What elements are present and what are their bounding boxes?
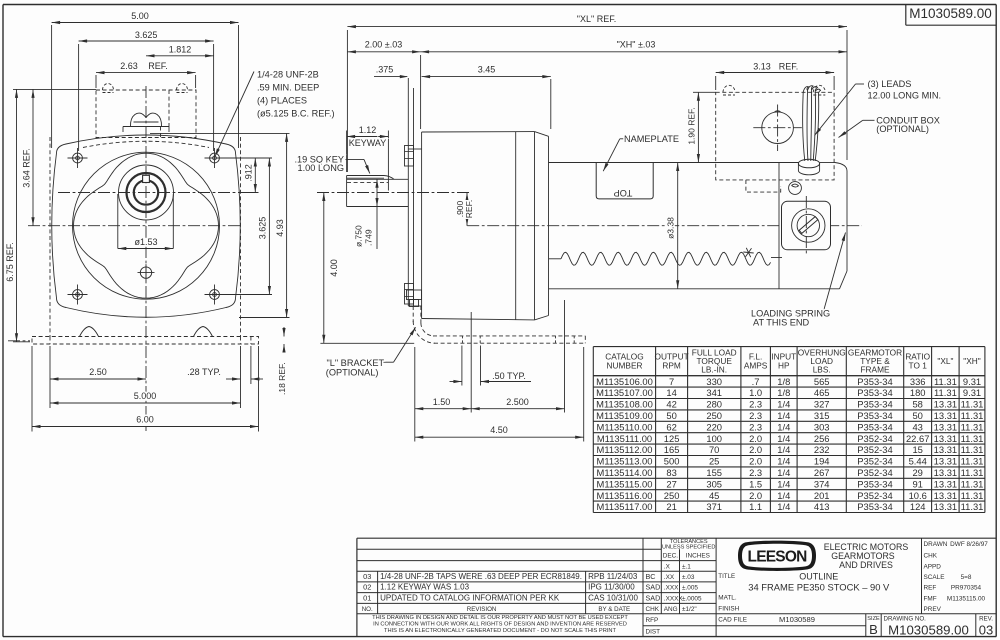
svg-text:P353-34: P353-34 (857, 399, 892, 410)
svg-text:1.1: 1.1 (749, 501, 762, 512)
svg-text:M1135117.00: M1135117.00 (597, 501, 653, 512)
svg-text:03: 03 (363, 572, 371, 581)
svg-text:TOP: TOP (614, 188, 633, 198)
svg-text:P352-34: P352-34 (857, 467, 892, 478)
svg-text:13.31: 13.31 (934, 467, 957, 478)
svg-text:DIST: DIST (646, 629, 661, 636)
svg-text:SCALE: SCALE (924, 574, 945, 581)
svg-text:50: 50 (912, 410, 922, 421)
svg-text:1/8: 1/8 (777, 387, 790, 398)
svg-text:"XH" ±.03: "XH" ±.03 (617, 40, 656, 50)
svg-text:REVISION: REVISION (467, 606, 497, 613)
svg-text:TO 1: TO 1 (909, 360, 928, 370)
svg-text:50: 50 (666, 410, 676, 421)
svg-text:INCHES: INCHES (686, 552, 710, 559)
svg-text:1/4: 1/4 (777, 444, 790, 455)
svg-text:13.31: 13.31 (934, 410, 957, 421)
svg-text:M1135115.00: M1135115.00 (947, 595, 986, 602)
svg-text:THIS DRAWING IN DESIGN AND DET: THIS DRAWING IN DESIGN AND DETAIL IS OUR… (372, 615, 628, 621)
svg-text:±.0005: ±.0005 (682, 595, 702, 602)
svg-text:1.90 REF.: 1.90 REF. (687, 107, 697, 144)
svg-text:.912: .912 (244, 164, 254, 182)
svg-text:.XXX: .XXX (664, 585, 679, 592)
svg-text:5.44: 5.44 (909, 456, 927, 467)
svg-text:465: 465 (814, 387, 830, 398)
svg-text:194: 194 (814, 456, 830, 467)
svg-text:13.31: 13.31 (934, 444, 957, 455)
svg-text:"XL": "XL" (937, 356, 953, 366)
svg-text:P352-34: P352-34 (857, 444, 892, 455)
svg-text:3.13: 3.13 (753, 61, 771, 71)
svg-text:REF.: REF. (148, 61, 168, 71)
svg-text:1/4-28 UNF-2B TAPS WERE .63 DE: 1/4-28 UNF-2B TAPS WERE .63 DEEP PER ECR… (380, 572, 582, 581)
svg-text:5.000: 5.000 (134, 391, 157, 401)
svg-text:M1030589.00: M1030589.00 (888, 622, 969, 637)
svg-text:.375: .375 (376, 64, 394, 74)
svg-text:±.005: ±.005 (682, 585, 698, 592)
svg-text:P352-34: P352-34 (857, 456, 892, 467)
svg-text:FRAME: FRAME (860, 365, 890, 375)
svg-text:"L" BRACKET: "L" BRACKET (327, 358, 385, 368)
svg-text:315: 315 (814, 410, 830, 421)
svg-text:CHK: CHK (646, 606, 660, 613)
svg-text:BC: BC (646, 572, 656, 581)
svg-text:165: 165 (664, 444, 680, 455)
svg-text:305: 305 (706, 478, 722, 489)
svg-text:29: 29 (912, 467, 922, 478)
svg-text:MATL.: MATL. (718, 595, 737, 602)
svg-text:THIS IS AN ELECTRONICALLY GENE: THIS IS AN ELECTRONICALLY GENERATED DOCU… (384, 628, 616, 634)
svg-text:UNLESS SPECIFIED: UNLESS SPECIFIED (662, 545, 715, 551)
svg-text:22.67: 22.67 (906, 433, 929, 444)
svg-text:DRAWN: DRAWN (924, 541, 948, 548)
svg-text:27: 27 (666, 478, 676, 489)
svg-text:11.31: 11.31 (934, 376, 957, 387)
svg-text:250: 250 (706, 410, 722, 421)
svg-text:1.5: 1.5 (749, 478, 762, 489)
svg-text:(4) PLACES: (4) PLACES (257, 96, 307, 106)
svg-text:3.625: 3.625 (135, 30, 158, 40)
svg-text:M1135110.00: M1135110.00 (597, 421, 653, 432)
svg-text:1/8: 1/8 (777, 376, 790, 387)
svg-text:2.3: 2.3 (749, 421, 762, 432)
svg-text:267: 267 (814, 467, 830, 478)
svg-text:250: 250 (664, 490, 680, 501)
svg-text:1/4: 1/4 (777, 490, 790, 501)
svg-text:500: 500 (664, 456, 680, 467)
svg-text:.59 MIN. DEEP: .59 MIN. DEEP (257, 83, 319, 93)
svg-text:REV.: REV. (979, 615, 993, 622)
svg-text:1/4: 1/4 (777, 467, 790, 478)
svg-text:ø1.53: ø1.53 (134, 237, 157, 247)
svg-text:LBS.: LBS. (813, 365, 831, 375)
svg-text:5.00: 5.00 (131, 11, 149, 21)
svg-text:1.0: 1.0 (749, 387, 762, 398)
svg-text:±.1: ±.1 (682, 563, 691, 570)
svg-text:CHK: CHK (924, 552, 938, 559)
svg-text:BY & DATE: BY & DATE (598, 606, 630, 613)
svg-text:1/4: 1/4 (777, 433, 790, 444)
svg-text:13.31: 13.31 (934, 433, 957, 444)
svg-text:1/4-28 UNF-2B: 1/4-28 UNF-2B (257, 70, 319, 80)
svg-text:45: 45 (709, 490, 719, 501)
svg-text:303: 303 (814, 421, 830, 432)
svg-text:3.45: 3.45 (478, 64, 496, 74)
svg-text:.749: .749 (364, 229, 374, 246)
svg-text:RPM: RPM (662, 360, 681, 370)
svg-text:11.31: 11.31 (961, 490, 984, 501)
svg-text:REF: REF (924, 585, 937, 592)
svg-text:13.31: 13.31 (934, 399, 957, 410)
svg-text:"XH": "XH" (963, 356, 980, 366)
svg-text:336: 336 (910, 376, 926, 387)
svg-text:1.812: 1.812 (169, 44, 192, 54)
svg-text:371: 371 (706, 501, 722, 512)
svg-text:565: 565 (814, 376, 830, 387)
svg-text:OUTLINE: OUTLINE (799, 572, 838, 582)
svg-text:1/4: 1/4 (777, 410, 790, 421)
svg-text:M1135115.00: M1135115.00 (597, 478, 653, 489)
svg-text:P353-34: P353-34 (857, 421, 892, 432)
svg-text:AMPS: AMPS (744, 360, 768, 370)
svg-text:413: 413 (814, 501, 830, 512)
svg-text:(3) LEADS: (3) LEADS (868, 79, 912, 89)
svg-text:4.00: 4.00 (329, 259, 339, 277)
svg-text:P353-34: P353-34 (857, 478, 892, 489)
svg-text:M1135108.00: M1135108.00 (596, 399, 653, 410)
svg-text:3.64 REF.: 3.64 REF. (21, 148, 31, 188)
svg-text:P353-34: P353-34 (857, 501, 892, 512)
svg-text:LEESON: LEESON (748, 549, 808, 566)
svg-text:CAS 10/31/00: CAS 10/31/00 (588, 593, 638, 602)
svg-text:"XL" REF.: "XL" REF. (577, 14, 616, 24)
svg-text:±.03: ±.03 (682, 574, 695, 581)
svg-text:327: 327 (814, 399, 830, 410)
svg-text:256: 256 (814, 433, 830, 444)
svg-text:13.31: 13.31 (934, 478, 957, 489)
svg-text:374: 374 (814, 478, 830, 489)
svg-text:13.31: 13.31 (934, 490, 957, 501)
svg-text:14: 14 (666, 387, 676, 398)
svg-text:2.50: 2.50 (89, 367, 107, 377)
svg-text:LB.-IN.: LB.-IN. (701, 365, 727, 375)
svg-text:.50 TYP.: .50 TYP. (492, 371, 526, 381)
svg-text:RFP: RFP (646, 617, 659, 624)
svg-text:ø.750: ø.750 (354, 225, 364, 247)
svg-text:FINISH: FINISH (718, 605, 739, 612)
svg-text:7: 7 (669, 376, 674, 387)
svg-text:FMF: FMF (924, 595, 937, 602)
svg-text:CAD FILE: CAD FILE (718, 617, 747, 624)
svg-text:TITLE: TITLE (718, 573, 735, 580)
svg-text:11.31: 11.31 (961, 421, 984, 432)
svg-text:341: 341 (706, 387, 722, 398)
svg-text:43: 43 (912, 421, 922, 432)
svg-text:1.00 LONG: 1.00 LONG (298, 163, 344, 173)
svg-text:155: 155 (706, 467, 722, 478)
svg-text:KEYWAY: KEYWAY (349, 138, 387, 148)
svg-text:125: 125 (664, 433, 680, 444)
svg-text:4.93: 4.93 (275, 219, 285, 237)
svg-text:M1135109.00: M1135109.00 (596, 410, 653, 421)
svg-text:11.31: 11.31 (961, 478, 984, 489)
svg-text:21: 21 (666, 501, 676, 512)
svg-text:5=8: 5=8 (961, 574, 972, 581)
svg-text:4.50: 4.50 (490, 425, 508, 435)
svg-text:11.31: 11.31 (961, 399, 984, 410)
svg-text:M1135114.00: M1135114.00 (597, 467, 653, 478)
svg-text:M1135111.00: M1135111.00 (597, 433, 652, 444)
svg-text:(OPTIONAL): (OPTIONAL) (326, 368, 379, 378)
svg-text:1.50: 1.50 (433, 397, 451, 407)
svg-text:201: 201 (814, 490, 830, 501)
svg-text:10.6: 10.6 (909, 490, 927, 501)
svg-text:11.31: 11.31 (961, 456, 984, 467)
svg-text:180: 180 (910, 387, 926, 398)
svg-text:2.0: 2.0 (749, 444, 762, 455)
svg-text:330: 330 (706, 376, 722, 387)
svg-text:P352-34: P352-34 (857, 433, 892, 444)
svg-text:DEC.: DEC. (663, 552, 678, 559)
svg-text:1.12: 1.12 (359, 125, 377, 135)
svg-text:P352-34: P352-34 (857, 490, 892, 501)
svg-text:232: 232 (814, 444, 830, 455)
svg-text:M1030589: M1030589 (779, 615, 815, 624)
svg-text:03: 03 (979, 622, 993, 637)
svg-text:9.31: 9.31 (963, 387, 981, 398)
svg-text:280: 280 (706, 399, 722, 410)
svg-text:11.31: 11.31 (961, 444, 984, 455)
svg-text:.XX: .XX (664, 574, 675, 581)
svg-text:.7: .7 (752, 376, 760, 387)
svg-text:AND DRIVES: AND DRIVES (839, 560, 893, 570)
svg-text:(ø5.125 B.C. REF.): (ø5.125 B.C. REF.) (257, 109, 335, 119)
svg-text:IPG 11/30/00: IPG 11/30/00 (588, 583, 635, 592)
svg-text:M1135107.00: M1135107.00 (596, 387, 653, 398)
svg-text:ANG: ANG (664, 606, 678, 613)
svg-text:M1135106.00: M1135106.00 (596, 376, 653, 387)
svg-text:2.500: 2.500 (506, 397, 529, 407)
svg-text:.X: .X (664, 563, 671, 570)
svg-text:P353-34: P353-34 (857, 376, 892, 387)
svg-text:SAD: SAD (646, 583, 661, 592)
svg-text:13.31: 13.31 (934, 456, 957, 467)
svg-text:34 FRAME PE350 STOCK – 90 V: 34 FRAME PE350 STOCK – 90 V (748, 582, 890, 593)
svg-text:9.31: 9.31 (963, 376, 981, 387)
svg-text:AT THIS END: AT THIS END (753, 317, 810, 327)
svg-text:HP: HP (778, 360, 790, 370)
svg-text:M1135116.00: M1135116.00 (597, 490, 653, 501)
svg-text:IN CONNECTION WITH OUR WORK AL: IN CONNECTION WITH OUR WORK ALL RIGHTS O… (373, 622, 627, 628)
svg-text:SAD: SAD (646, 593, 661, 602)
svg-text:02: 02 (363, 583, 371, 592)
svg-text:DRAWING NO.: DRAWING NO. (884, 615, 927, 622)
svg-text:P353-34: P353-34 (857, 410, 892, 421)
svg-text:M1135113.00: M1135113.00 (597, 456, 653, 467)
svg-text:(OPTIONAL): (OPTIONAL) (876, 124, 929, 134)
svg-text:25: 25 (709, 456, 719, 467)
svg-text:2.0: 2.0 (749, 490, 762, 501)
svg-text:M1135112.00: M1135112.00 (597, 444, 653, 455)
svg-text:APPD: APPD (924, 563, 942, 570)
svg-text:1.12 KEYWAY WAS 1.03: 1.12 KEYWAY WAS 1.03 (380, 583, 469, 592)
svg-text:1/4: 1/4 (777, 478, 790, 489)
svg-text:100: 100 (706, 433, 722, 444)
svg-text:13.31: 13.31 (934, 501, 957, 512)
svg-text:70: 70 (709, 444, 719, 455)
svg-text:11.31: 11.31 (961, 467, 984, 478)
svg-text:SIZE: SIZE (867, 616, 880, 622)
svg-text:58: 58 (912, 399, 922, 410)
svg-text:1/4: 1/4 (777, 399, 790, 410)
svg-text:1/4: 1/4 (777, 501, 790, 512)
svg-text:1/4: 1/4 (777, 456, 790, 467)
svg-text:ø3.38: ø3.38 (666, 217, 676, 239)
svg-text:±1/2": ±1/2" (682, 606, 697, 613)
svg-text:91: 91 (912, 478, 922, 489)
svg-text:2.0: 2.0 (749, 456, 762, 467)
svg-text:11.31: 11.31 (934, 387, 957, 398)
svg-text:2.00 ±.03: 2.00 ±.03 (365, 40, 402, 50)
svg-text:124: 124 (910, 501, 926, 512)
svg-text:RPB 11/24/03: RPB 11/24/03 (588, 572, 638, 581)
svg-text:2.0: 2.0 (749, 433, 762, 444)
svg-text:42: 42 (666, 399, 676, 410)
svg-text:P353-34: P353-34 (857, 387, 892, 398)
svg-text:6.75 REF.: 6.75 REF. (5, 242, 15, 282)
svg-text:220: 220 (706, 421, 722, 432)
svg-text:.18 REF.: .18 REF. (277, 362, 287, 395)
svg-text:11.31: 11.31 (961, 410, 984, 421)
svg-text:B: B (869, 622, 878, 637)
svg-text:.XXXX: .XXXX (664, 595, 684, 602)
svg-text:M1030589.00: M1030589.00 (909, 6, 992, 21)
svg-text:83: 83 (666, 467, 676, 478)
svg-text:12.00 LONG MIN.: 12.00 LONG MIN. (868, 90, 942, 100)
svg-text:UPDATED TO CATALOG INFORMATION: UPDATED TO CATALOG INFORMATION PER KK (380, 593, 560, 602)
svg-text:11.31: 11.31 (961, 501, 984, 512)
svg-text:2.3: 2.3 (749, 467, 762, 478)
svg-text:15: 15 (912, 444, 922, 455)
svg-text:.28 TYP.: .28 TYP. (187, 367, 221, 377)
svg-text:13.31: 13.31 (934, 421, 957, 432)
svg-text:2.3: 2.3 (749, 410, 762, 421)
svg-text:1/4: 1/4 (777, 421, 790, 432)
svg-text:6.00: 6.00 (136, 414, 154, 424)
svg-text:REF.: REF. (464, 200, 474, 218)
svg-text:PR970354: PR970354 (951, 585, 982, 592)
svg-text:PREV: PREV (924, 606, 942, 613)
svg-text:NAMEPLATE: NAMEPLATE (624, 134, 679, 144)
svg-text:2.63: 2.63 (120, 61, 138, 71)
svg-text:2.3: 2.3 (749, 399, 762, 410)
svg-text:DWF 8/26/97: DWF 8/26/97 (950, 541, 988, 548)
svg-text:NO.: NO. (362, 606, 373, 613)
svg-text:11.31: 11.31 (961, 433, 984, 444)
svg-text:NUMBER: NUMBER (607, 360, 643, 370)
svg-text:01: 01 (363, 593, 371, 602)
svg-text:62: 62 (666, 421, 676, 432)
svg-text:REF.: REF. (779, 61, 799, 71)
svg-text:3.625: 3.625 (258, 217, 268, 240)
